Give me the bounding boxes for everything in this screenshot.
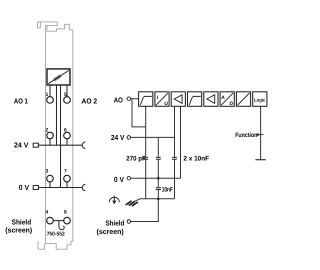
svg-text:24 V: 24 V: [111, 133, 125, 142]
svg-text:U: U: [164, 101, 168, 107]
svg-text:750-552: 750-552: [47, 232, 65, 238]
svg-text:8: 8: [64, 210, 67, 216]
svg-text:Logic: Logic: [254, 98, 266, 103]
svg-text:24 V: 24 V: [14, 141, 29, 150]
svg-text:10nF: 10nF: [162, 186, 173, 193]
svg-text:1: 1: [46, 92, 49, 98]
svg-text:2: 2: [46, 127, 49, 133]
svg-text:Function: Function: [235, 132, 257, 139]
svg-text:4: 4: [46, 210, 49, 216]
svg-text:3: 3: [46, 168, 49, 174]
svg-text:D: D: [230, 101, 234, 107]
svg-text:AO: AO: [114, 96, 123, 105]
svg-text:2 x 10nF: 2 x 10nF: [183, 156, 209, 163]
svg-text:A: A: [221, 95, 225, 101]
svg-text:7: 7: [64, 168, 67, 174]
svg-text:(screen): (screen): [5, 226, 32, 235]
svg-text:(screen): (screen): [97, 227, 125, 236]
svg-text:0 V: 0 V: [19, 183, 29, 192]
svg-text:5: 5: [64, 92, 67, 98]
svg-text:270 pF: 270 pF: [126, 155, 145, 162]
svg-text:0 V: 0 V: [114, 175, 124, 184]
svg-text:AO 1: AO 1: [14, 96, 28, 105]
svg-text:AO 2: AO 2: [82, 96, 98, 105]
svg-text:6: 6: [64, 127, 67, 133]
